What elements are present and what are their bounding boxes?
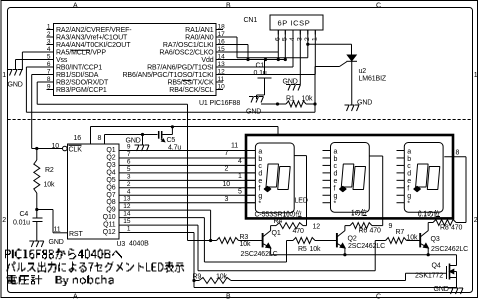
frame zone numbers bbox=[2, 72, 478, 224]
resistor R2 labels bbox=[44, 167, 56, 189]
svg-text:2: 2 bbox=[225, 166, 229, 173]
junction R9 tap bbox=[192, 279, 195, 282]
transistor Q1 labels bbox=[241, 230, 281, 258]
svg-text:U1 PIC16F88: U1 PIC16F88 bbox=[199, 100, 240, 107]
svg-text:Q4: Q4 bbox=[106, 169, 115, 176]
svg-text:2: 2 bbox=[127, 181, 131, 188]
svg-text:Q1: Q1 bbox=[106, 147, 115, 154]
transistor Q2 labels bbox=[348, 236, 386, 250]
svg-text:11: 11 bbox=[54, 226, 61, 233]
svg-text:4: 4 bbox=[47, 46, 51, 53]
svg-text:RA1/AN1: RA1/AN1 bbox=[185, 27, 214, 34]
resistor R9 bbox=[194, 278, 231, 284]
wire pin15 stub long bbox=[216, 51, 278, 53]
junction R1 left bbox=[276, 102, 279, 105]
svg-text:13: 13 bbox=[123, 196, 131, 203]
svg-text:0.1u: 0.1u bbox=[254, 70, 267, 77]
led display DS3 body bbox=[404, 143, 443, 213]
led display DS3 pin stubs bbox=[397, 151, 405, 203]
svg-text:14: 14 bbox=[123, 211, 131, 218]
svg-text:GND: GND bbox=[246, 109, 261, 116]
svg-text:5: 5 bbox=[238, 189, 242, 196]
svg-text:R9: R9 bbox=[193, 274, 202, 281]
svg-text:CN1: CN1 bbox=[244, 17, 258, 24]
svg-text:4: 4 bbox=[238, 158, 242, 165]
wire ICSP pin5 to sensor bbox=[308, 44, 352, 55]
svg-text:1: 1 bbox=[474, 72, 478, 79]
wire Vdd pin14 rail bbox=[216, 30, 285, 60]
svg-text:RB0/INT/CCP1: RB0/INT/CCP1 bbox=[56, 65, 102, 72]
svg-text:RB3/PGM/CCP1: RB3/PGM/CCP1 bbox=[56, 87, 107, 94]
svg-text:4040B: 4040B bbox=[129, 240, 149, 247]
svg-text:d: d bbox=[334, 171, 338, 178]
ground symbol below u2 bbox=[345, 105, 360, 111]
svg-text:Q8: Q8 bbox=[106, 199, 115, 206]
svg-text:RA2/AN2/CVREF/VREF-: RA2/AN2/CVREF/VREF- bbox=[56, 27, 132, 34]
junction Q2 emitter bbox=[343, 253, 346, 256]
svg-text:U3: U3 bbox=[117, 241, 126, 248]
svg-text:Q3: Q3 bbox=[431, 236, 440, 243]
ic U1 pin stubs bbox=[47, 30, 224, 90]
svg-text:1: 1 bbox=[312, 37, 319, 41]
frame zone letters top bbox=[73, 3, 381, 10]
svg-text:16: 16 bbox=[74, 135, 82, 142]
resistor R5 bbox=[287, 238, 316, 244]
wire R1 to sensor output bbox=[315, 62, 347, 105]
capacitor C1 label bbox=[254, 63, 267, 77]
svg-text:10k: 10k bbox=[310, 246, 322, 253]
junction clock/R2 node bbox=[35, 147, 38, 150]
ic U3 body bbox=[68, 144, 120, 239]
svg-text:R6: R6 bbox=[359, 228, 368, 235]
svg-text:a: a bbox=[334, 148, 338, 155]
wire pin8 to R3 column bbox=[37, 82, 216, 241]
svg-text:Q7: Q7 bbox=[106, 192, 115, 199]
ground symbol below C4 bbox=[29, 241, 44, 247]
resistor R1 label bbox=[286, 96, 313, 103]
junction R3 feed bbox=[209, 239, 212, 242]
svg-text:10: 10 bbox=[218, 84, 226, 91]
svg-text:R7: R7 bbox=[396, 229, 405, 236]
svg-text:2: 2 bbox=[304, 37, 311, 41]
svg-text:6: 6 bbox=[47, 61, 51, 68]
svg-text:RB7/AN6/PGD/T1OSI: RB7/AN6/PGD/T1OSI bbox=[147, 65, 214, 72]
svg-text:b: b bbox=[407, 156, 411, 163]
svg-text:6P ICSP: 6P ICSP bbox=[278, 18, 311, 27]
svg-text:*: * bbox=[334, 201, 337, 208]
svg-text:2SK1772: 2SK1772 bbox=[415, 273, 443, 280]
ic U3 output pin numbers bbox=[123, 144, 131, 233]
led display DS2 segments glyph bbox=[339, 164, 365, 192]
wire ICSP pin6 to Vdd bbox=[277, 30, 279, 60]
wire pin7 to 4040 clock bbox=[32, 75, 62, 149]
svg-text:8: 8 bbox=[456, 149, 460, 156]
junction R2 bottom bbox=[35, 208, 38, 211]
svg-text:Q6: Q6 bbox=[106, 184, 115, 191]
svg-text:R4: R4 bbox=[274, 218, 283, 225]
resistor R8 labels bbox=[440, 225, 463, 232]
junction U3 ground node bbox=[141, 133, 144, 136]
svg-text:GND: GND bbox=[357, 100, 372, 107]
title line 1 bbox=[5, 249, 122, 260]
resistor R3 bbox=[217, 238, 239, 244]
led display DS3 segments glyph bbox=[414, 164, 440, 192]
svg-text:2SC2462LC: 2SC2462LC bbox=[348, 243, 385, 250]
svg-text:LM61BIZ: LM61BIZ bbox=[359, 76, 387, 83]
ic U3 CLK label bbox=[69, 145, 83, 153]
svg-text:2: 2 bbox=[47, 31, 51, 38]
wire R1 node down bbox=[314, 104, 316, 112]
wire Q3 collector to R8 bbox=[427, 223, 429, 231]
svg-text:R2: R2 bbox=[45, 167, 54, 174]
svg-text:7: 7 bbox=[225, 150, 229, 157]
svg-text:C: C bbox=[376, 293, 381, 300]
svg-text:Q3: Q3 bbox=[106, 162, 115, 169]
ic U3 reference label bbox=[117, 240, 150, 248]
svg-text:Q10: Q10 bbox=[103, 214, 116, 221]
wire Q1 collector to R4 bbox=[270, 226, 272, 231]
svg-text:GND: GND bbox=[434, 286, 449, 293]
wire R9 to gate rail bbox=[231, 273, 447, 280]
resistor R6 labels bbox=[359, 228, 382, 235]
svg-text:11: 11 bbox=[231, 143, 238, 150]
svg-text:RB1/SDI/SDA: RB1/SDI/SDA bbox=[56, 72, 99, 79]
svg-text:4: 4 bbox=[289, 37, 296, 41]
svg-text:1: 1 bbox=[238, 173, 242, 180]
svg-text:5: 5 bbox=[47, 54, 51, 61]
svg-text:7: 7 bbox=[47, 69, 51, 76]
svg-text:1: 1 bbox=[127, 226, 131, 233]
led display DS2 pin letters bbox=[334, 148, 338, 207]
svg-text:R3: R3 bbox=[240, 234, 249, 241]
svg-text:9: 9 bbox=[127, 144, 131, 151]
svg-text:9: 9 bbox=[389, 223, 393, 230]
svg-text:9: 9 bbox=[47, 84, 51, 91]
transistor Q4 mosfet bbox=[447, 255, 457, 288]
ic U3 RST pin bbox=[37, 210, 68, 233]
wire Q9 to R3 column bbox=[119, 210, 211, 240]
svg-text:470: 470 bbox=[451, 225, 463, 232]
svg-text:e: e bbox=[407, 178, 411, 185]
led display DS1 pin letters bbox=[258, 148, 262, 207]
capacitor C4 bbox=[33, 210, 43, 241]
capacitor C4 labels bbox=[13, 211, 30, 227]
wire DS3 common drop bbox=[444, 157, 466, 223]
svg-text:GND: GND bbox=[49, 239, 64, 246]
svg-text:Q11: Q11 bbox=[103, 222, 116, 229]
wire Q2 collector to R6 bbox=[344, 226, 346, 231]
junction C5 top bbox=[171, 125, 174, 128]
svg-text:g: g bbox=[334, 193, 338, 200]
led display DS2 body bbox=[331, 143, 370, 213]
svg-text:B: B bbox=[226, 3, 231, 10]
wire pin12 to ICSP bbox=[216, 30, 315, 75]
ground symbol below ICSP bbox=[286, 85, 301, 91]
led display DS1 pin stubs bbox=[246, 151, 255, 203]
svg-text:5: 5 bbox=[127, 166, 131, 173]
wire R3 to Q1 base bbox=[239, 240, 263, 242]
svg-text:11: 11 bbox=[218, 76, 225, 83]
svg-text:d: d bbox=[258, 171, 262, 178]
resistor R5 labels bbox=[298, 246, 321, 253]
net labels segment bus bbox=[223, 143, 243, 204]
svg-text:2: 2 bbox=[2, 217, 6, 224]
wire pin6 RB0 sensor net bbox=[26, 67, 315, 112]
resistor R1 bbox=[286, 101, 306, 107]
svg-text:GND: GND bbox=[8, 82, 23, 89]
svg-text:B: B bbox=[226, 293, 231, 300]
svg-text:Q12: Q12 bbox=[103, 229, 116, 236]
svg-text:5: 5 bbox=[282, 37, 289, 41]
led display DS1 segments glyph bbox=[264, 164, 290, 192]
resistor R4 labels bbox=[274, 218, 305, 235]
svg-text:10: 10 bbox=[223, 181, 231, 188]
svg-text:12: 12 bbox=[313, 223, 321, 230]
svg-text:7: 7 bbox=[127, 151, 131, 158]
connector CN1 body bbox=[270, 15, 323, 30]
svg-text:R1: R1 bbox=[286, 96, 295, 103]
resistor R7 labels bbox=[396, 229, 419, 242]
svg-text:2: 2 bbox=[474, 217, 478, 224]
sensor u2 labels bbox=[359, 68, 387, 83]
ic U1 body bbox=[54, 24, 217, 96]
capacitor C5 bbox=[143, 127, 173, 142]
svg-text:a: a bbox=[258, 148, 262, 155]
svg-text:f: f bbox=[258, 186, 260, 193]
frame zone letters bottom bbox=[73, 293, 381, 300]
transistor Q3 labels bbox=[431, 236, 469, 253]
transistor Q1 bbox=[263, 231, 271, 248]
wire pin16 to Vdd rail bbox=[216, 45, 248, 60]
resistor R7 bbox=[375, 238, 406, 244]
transistor Q2 bbox=[337, 231, 345, 248]
wire pin17 to ICSP pin5 bbox=[216, 30, 308, 58]
led module outline box bbox=[246, 135, 453, 218]
svg-text:470: 470 bbox=[370, 228, 382, 235]
svg-text:Vss: Vss bbox=[56, 57, 68, 64]
svg-text:8: 8 bbox=[98, 135, 102, 142]
wire ICSP pin4 to ground bbox=[299, 30, 301, 85]
svg-text:C5: C5 bbox=[167, 137, 176, 144]
led display DS3 pin letters bbox=[407, 148, 411, 207]
svg-text:470: 470 bbox=[293, 228, 305, 235]
svg-text:Q2: Q2 bbox=[106, 154, 115, 161]
junction R1 right bbox=[313, 102, 316, 105]
svg-text:10k: 10k bbox=[216, 274, 228, 281]
ground symbol left of U1 bbox=[8, 70, 23, 76]
wire segment bus a-dp bbox=[119, 151, 255, 203]
svg-text:LED: LED bbox=[295, 197, 308, 204]
svg-text:RA6/OSC2/CLKO: RA6/OSC2/CLKO bbox=[159, 50, 214, 57]
ic U3 output names bbox=[103, 147, 116, 236]
resistor R4 bbox=[276, 223, 303, 229]
wire U3 pin16 Vdd bbox=[91, 127, 279, 145]
resistor R1 leads bbox=[261, 103, 315, 105]
svg-text:18: 18 bbox=[218, 24, 226, 31]
transistor Q4 labels bbox=[415, 263, 443, 280]
svg-text:10k: 10k bbox=[44, 182, 56, 189]
resistor R2 leads bbox=[36, 149, 38, 210]
svg-text:R8: R8 bbox=[440, 225, 449, 232]
wire U3 pin8 ground bbox=[105, 135, 143, 145]
svg-text:R5: R5 bbox=[298, 246, 307, 253]
svg-text:f: f bbox=[407, 186, 409, 193]
svg-text:15: 15 bbox=[123, 218, 131, 225]
svg-text:b: b bbox=[258, 156, 262, 163]
wire R5 to Q2 base bbox=[315, 240, 337, 242]
led display DS2 digit label bbox=[352, 209, 367, 216]
svg-text:RB6/AN5/PGC/T1OSO/T1CKI: RB6/AN5/PGC/T1OSO/T1CKI bbox=[123, 72, 214, 79]
svg-text:1: 1 bbox=[47, 24, 51, 31]
svg-text:3: 3 bbox=[127, 173, 131, 180]
svg-text:10k: 10k bbox=[302, 96, 314, 103]
svg-text:10: 10 bbox=[52, 143, 60, 150]
svg-text:RA4/AN4/T0CKI/C2OUT: RA4/AN4/T0CKI/C2OUT bbox=[56, 42, 131, 49]
svg-text:4: 4 bbox=[127, 188, 131, 195]
svg-text:Vdd: Vdd bbox=[201, 57, 213, 64]
wire Q11 gate rail bbox=[119, 225, 375, 271]
svg-text:*: * bbox=[407, 201, 410, 208]
title line 3 bbox=[7, 275, 114, 286]
wire Q3 emitter to rail bbox=[427, 248, 429, 255]
svg-text:12: 12 bbox=[123, 203, 131, 210]
svg-text:f: f bbox=[334, 186, 336, 193]
svg-text:RB4/SCK/SCL: RB4/SCK/SCL bbox=[169, 87, 213, 94]
svg-text:A: A bbox=[73, 293, 78, 300]
svg-text:RA7/OSC1/CLKI: RA7/OSC1/CLKI bbox=[163, 42, 214, 49]
svg-text:*: * bbox=[258, 201, 261, 208]
svg-text:Q4: Q4 bbox=[432, 263, 441, 270]
resistor R2 bbox=[34, 160, 40, 193]
svg-text:g: g bbox=[407, 193, 411, 200]
led display DS1 body bbox=[255, 143, 294, 213]
led display DS1 digit label bbox=[283, 210, 301, 217]
resistor R6 bbox=[350, 223, 372, 229]
led display DS2 pin stubs bbox=[323, 151, 331, 203]
svg-text:b: b bbox=[334, 156, 338, 163]
svg-text:A: A bbox=[73, 3, 78, 10]
svg-text:1: 1 bbox=[2, 72, 6, 79]
resistor R4 leads bbox=[271, 225, 307, 227]
svg-text:RB2/SDO/RX/DT: RB2/SDO/RX/DT bbox=[56, 80, 109, 87]
wire Q2 emitter to rail bbox=[344, 248, 346, 255]
wire R7 to Q3 base bbox=[407, 240, 421, 242]
wire DS2 common drop bbox=[369, 156, 382, 226]
ground symbol bottom right bbox=[449, 288, 464, 294]
capacitor C1 bbox=[257, 60, 272, 100]
transistor Q3 bbox=[420, 231, 428, 248]
led display DS3 digit label bbox=[418, 210, 440, 217]
wire DS1 common drop bbox=[294, 156, 306, 226]
sensor u2 symbol bbox=[347, 55, 358, 105]
svg-text:e: e bbox=[258, 178, 262, 185]
svg-text:GND: GND bbox=[126, 138, 141, 145]
title line 2 bbox=[7, 262, 185, 273]
svg-text:Q1: Q1 bbox=[272, 230, 281, 237]
wire pin5 Vss to ground bbox=[16, 60, 47, 71]
svg-text:u2: u2 bbox=[359, 68, 367, 75]
svg-text:6: 6 bbox=[275, 37, 282, 41]
svg-text:0.01u: 0.01u bbox=[13, 220, 30, 227]
svg-text:Q5: Q5 bbox=[106, 177, 115, 184]
svg-text:C4: C4 bbox=[20, 211, 29, 218]
svg-text:2SC2462LC: 2SC2462LC bbox=[431, 246, 468, 253]
ic U1 pin numbers bbox=[47, 24, 225, 91]
ground symbol below C1 bbox=[249, 97, 264, 103]
wire emitter rail bbox=[271, 254, 457, 256]
section divider dashed line bbox=[8, 119, 473, 121]
svg-text:RST: RST bbox=[69, 231, 83, 238]
svg-text:10k: 10k bbox=[240, 241, 252, 248]
resistor R8 leads bbox=[428, 222, 433, 224]
connector CN1 pin stubs bbox=[278, 30, 315, 35]
svg-text:a: a bbox=[407, 148, 411, 155]
ic U1 pin names bbox=[56, 27, 214, 94]
svg-text:c: c bbox=[407, 163, 411, 170]
resistor R6 leads bbox=[345, 225, 383, 227]
svg-text:RA0/AN0: RA0/AN0 bbox=[185, 35, 214, 42]
svg-text:3: 3 bbox=[47, 39, 51, 46]
svg-text:CLK: CLK bbox=[69, 146, 83, 153]
svg-text:C: C bbox=[376, 3, 381, 10]
svg-text:8: 8 bbox=[47, 76, 51, 83]
svg-text:3: 3 bbox=[225, 196, 229, 203]
wire Q10 to R5 bbox=[119, 218, 287, 262]
capacitor C5 labels bbox=[167, 137, 182, 152]
ic U3 clock bubble bbox=[63, 146, 68, 151]
ground symbol U3 bbox=[135, 145, 150, 151]
svg-text:Q9: Q9 bbox=[106, 207, 115, 214]
junction ICSP sensor node bbox=[306, 43, 309, 46]
junction Q3 emitter bbox=[427, 253, 430, 256]
resistor R3 labels bbox=[240, 234, 252, 248]
svg-text:g: g bbox=[258, 193, 262, 200]
wire pin4 MCLR to ground bbox=[22, 52, 46, 70]
wire pin13 to ICSP bbox=[216, 30, 293, 67]
resistor R8 bbox=[433, 220, 456, 226]
svg-text:RA3/AN3/Vref+/C1OUT: RA3/AN3/Vref+/C1OUT bbox=[56, 35, 128, 42]
svg-text:6: 6 bbox=[127, 158, 131, 165]
wire Q12 ground rail bbox=[119, 233, 457, 288]
svg-text:e: e bbox=[334, 178, 338, 185]
svg-text:d: d bbox=[407, 171, 411, 178]
svg-text:Q2: Q2 bbox=[348, 236, 357, 243]
svg-text:C1: C1 bbox=[256, 63, 265, 70]
resistor R9 labels bbox=[193, 274, 228, 281]
connector CN1 pin numbers bbox=[275, 37, 319, 41]
svg-text:3: 3 bbox=[297, 37, 304, 41]
junction Vdd nodes bbox=[246, 58, 287, 61]
wire Q1 emitter to rail bbox=[270, 248, 272, 255]
svg-text:GND: GND bbox=[283, 79, 298, 86]
